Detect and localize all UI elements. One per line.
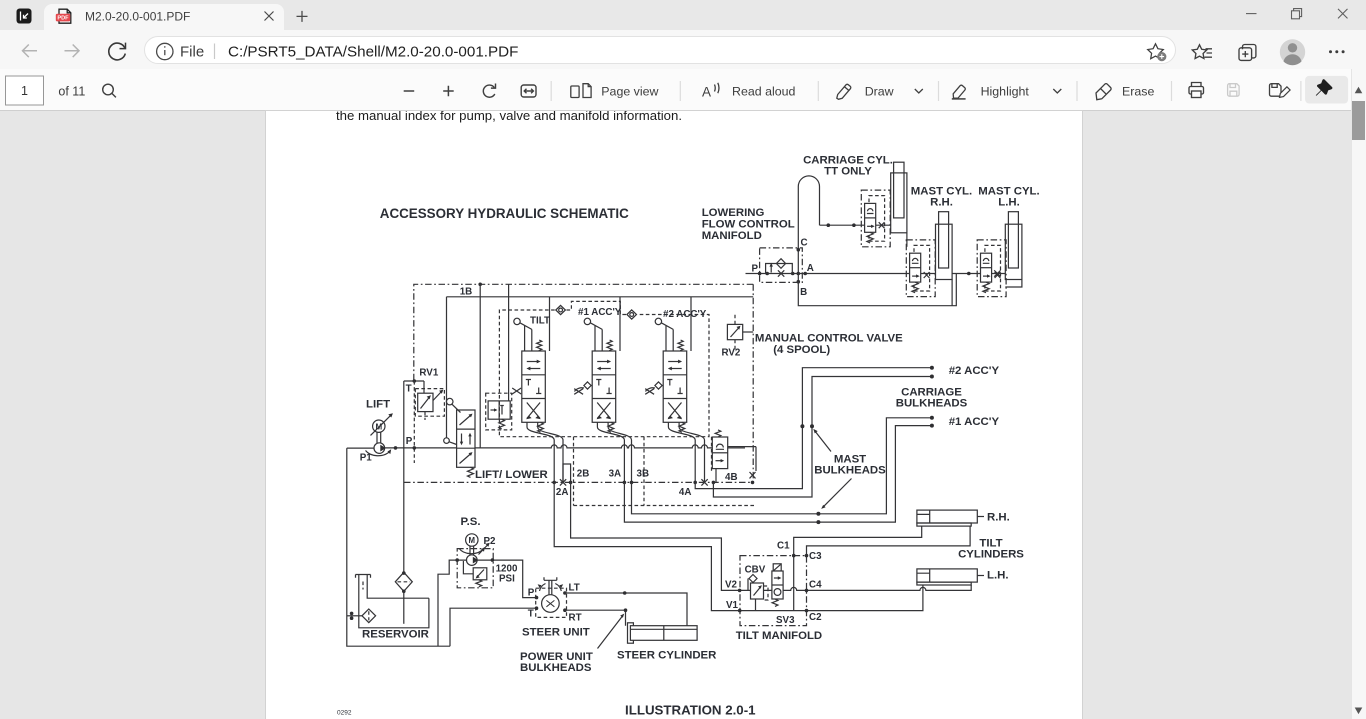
steer unit (536, 577, 567, 617)
new tab plus (297, 11, 308, 22)
wire PS pump output to steer P (477, 560, 536, 598)
svg-text:RESERVOIR: RESERVOIR (362, 628, 429, 640)
save icon (disabled) (1228, 84, 1240, 97)
steer cylinder (628, 623, 698, 643)
svg-text:P.S.: P.S. (461, 516, 481, 528)
wire spool feeds from top rail (550, 297, 692, 351)
tilt manifold box (740, 556, 807, 626)
svg-text:C:/PSRT5_DATA/Shell/M2.0-20.0-: C:/PSRT5_DATA/Shell/M2.0-20.0-001.PDF (228, 44, 518, 61)
mast bulkheads arrow 2 (824, 479, 852, 507)
suction strainer diamond (362, 609, 376, 623)
wire tilt manifold main line V2 to C4 (740, 587, 807, 590)
check valve diamond (776, 259, 785, 269)
port 2A orifice X (560, 479, 566, 485)
svg-text:File: File (180, 44, 204, 61)
forward arrow (disabled) (65, 45, 80, 58)
page number box (6, 76, 44, 105)
svg-text:MANUAL CONTROL VALVE: MANUAL CONTROL VALVE (755, 333, 903, 345)
svg-text:BULKHEADS: BULKHEADS (814, 465, 886, 477)
mast cylinder RH rod (939, 212, 949, 268)
svg-text:3A: 3A (609, 469, 622, 480)
back arrow (disabled) (23, 45, 38, 58)
solenoid valve SV3 (772, 564, 783, 607)
svg-text:P: P (752, 264, 759, 275)
svg-text:#2 ACC'Y: #2 ACC'Y (949, 365, 1000, 377)
tilt manifold port dots (792, 554, 796, 558)
svg-text:LOWERING: LOWERING (702, 207, 765, 219)
wire 3B port to no1 accy upper (632, 418, 932, 514)
svg-text:R.H.: R.H. (930, 197, 953, 209)
svg-text:L.H.: L.H. (987, 570, 1009, 582)
svg-text:M: M (469, 536, 476, 545)
svg-text:PSI: PSI (499, 574, 515, 585)
window restore (1292, 9, 1302, 19)
svg-text:3B: 3B (637, 469, 650, 480)
add favorite star (1148, 44, 1167, 61)
wire main pressure rail from pump P (385, 445, 746, 448)
svg-text:#2 ACC'Y: #2 ACC'Y (663, 309, 707, 320)
velocity fuse carriage (861, 190, 890, 247)
svg-text:T: T (406, 384, 412, 395)
relief valve RV1 (415, 389, 444, 420)
return filter diamond (395, 572, 412, 591)
port 4A orifice X (701, 479, 707, 485)
svg-text:SV3: SV3 (776, 615, 795, 626)
svg-text:A: A (807, 263, 814, 274)
svg-text:of 11: of 11 (58, 84, 85, 98)
workspace icon (17, 9, 32, 24)
node junction dots on carriage feed (827, 223, 831, 227)
counterbalance valve CBV (748, 575, 768, 611)
mast cylinder LH barrel (1005, 224, 1022, 279)
PS relief valve (463, 561, 486, 587)
svg-text:PDF: PDF (57, 16, 69, 22)
PS pump box (457, 549, 493, 588)
refresh (109, 43, 126, 60)
tilt cylinder LH (917, 569, 984, 585)
favorites bar star-list (1192, 45, 1212, 59)
svg-text:BULKHEADS: BULKHEADS (896, 398, 968, 410)
wire pump suction to left (347, 447, 374, 449)
lift pump motor M (366, 413, 393, 455)
spool valve ACC2 (655, 318, 687, 432)
svg-text:BULKHEADS: BULKHEADS (520, 662, 592, 674)
wire P stub into lowering manifold (746, 273, 760, 275)
manual control valve outer boundary dash-dot (414, 284, 753, 381)
search icon (103, 84, 116, 97)
velocity fuse mast RH (906, 240, 935, 297)
draw pen icon (837, 84, 851, 99)
svg-text:(4 SPOOL): (4 SPOOL) (773, 344, 830, 356)
svg-text:2B: 2B (577, 469, 590, 480)
port junction dots (552, 481, 556, 485)
wire carriage cylinder feed line (820, 224, 891, 226)
svg-text:#1 ACC'Y: #1 ACC'Y (949, 416, 1000, 428)
info circle (157, 43, 173, 59)
svg-text:T: T (528, 609, 534, 620)
svg-text:TT ONLY: TT ONLY (824, 166, 872, 178)
wire acc1 work lines (597, 422, 631, 482)
svg-text:C4: C4 (809, 580, 822, 591)
node 1B (478, 283, 482, 287)
wire lowering manifold internal line (760, 273, 803, 275)
collections (1239, 45, 1256, 61)
svg-text:1B: 1B (460, 287, 473, 298)
svg-text:2A: 2A (556, 487, 569, 498)
wire T rail (404, 381, 424, 393)
wire left wall (403, 381, 405, 448)
eraser icon (1096, 84, 1111, 100)
scrollbar arrows (1355, 87, 1363, 94)
ellipsis (1329, 50, 1345, 53)
wire 2B port to tilt manifold V2 (571, 482, 740, 590)
wire tank return dashed (413, 381, 415, 463)
svg-text:LT: LT (569, 583, 580, 594)
svg-text:P: P (528, 588, 535, 599)
anti-drift valve 4B (712, 430, 756, 483)
node A junction (797, 272, 801, 276)
spool pilot orifice TILT (512, 388, 521, 394)
svg-text:C: C (801, 238, 808, 249)
zoom out (404, 90, 415, 92)
svg-text:MANIFOLD: MANIFOLD (702, 230, 762, 242)
node C (797, 248, 801, 252)
wire tilt work lines (527, 422, 563, 482)
zoom in (443, 86, 454, 97)
power unit bulkheads arrow (598, 616, 623, 648)
svg-text:TILT MANIFOLD: TILT MANIFOLD (736, 630, 822, 642)
wire 4A port to no2 accy upper (695, 368, 932, 489)
wire 3A port to no1 accy lower (624, 426, 932, 522)
spool pilot check ACC1 (574, 382, 592, 394)
svg-text:L.H.: L.H. (998, 197, 1020, 209)
coupler diamond 1 (556, 305, 566, 314)
svg-text:A: A (702, 85, 711, 100)
svg-text:1: 1 (21, 84, 28, 98)
PS pump P2 (467, 555, 479, 566)
wire reservoir loop to PS pump suction (438, 560, 467, 646)
carriage cylinder barrel (891, 173, 907, 233)
svg-text:#1 ACC'Y: #1 ACC'Y (578, 307, 622, 318)
svg-text:V2: V2 (725, 580, 738, 591)
wire V1 line to LH tilt cylinder piston (740, 585, 923, 611)
svg-text:STEER UNIT: STEER UNIT (522, 627, 590, 639)
window close (1338, 9, 1348, 19)
wire mast LH barrel bottom (1005, 280, 1022, 288)
wire C4 to LH tilt cylinder rod (807, 585, 972, 590)
highlight icon (952, 85, 966, 99)
svg-text:0292: 0292 (337, 710, 352, 717)
wire 1B drop (479, 284, 481, 448)
mast bulkheads arrow 1 (815, 431, 831, 451)
svg-text:STEER CYLINDER: STEER CYLINDER (617, 650, 716, 662)
lift pump P1 (374, 443, 386, 454)
svg-text:FLOW CONTROL: FLOW CONTROL (702, 219, 795, 231)
svg-text:Erase: Erase (1122, 85, 1154, 99)
svg-text:V1: V1 (726, 600, 739, 611)
svg-text:C3: C3 (809, 551, 822, 562)
lift/lower spool valve (444, 398, 475, 477)
svg-text:M2.0-20.0-001.PDF: M2.0-20.0-001.PDF (85, 10, 190, 24)
svg-text:P: P (406, 436, 413, 447)
svg-text:LIFT/ LOWER: LIFT/ LOWER (475, 469, 548, 481)
spool valve ACC1 (584, 318, 616, 432)
wire suction line far left (347, 448, 450, 646)
wire T-return left wall down to return filter (403, 448, 405, 572)
reservoir tank (356, 575, 429, 628)
velocity fuse mast LH (977, 240, 1006, 297)
svg-text:ACCESSORY HYDRAULIC SCHEMATIC: ACCESSORY HYDRAULIC SCHEMATIC (380, 206, 629, 221)
wire tilt manifold C1 internal drop (793, 556, 795, 611)
svg-text:B: B (800, 287, 807, 298)
orifice X mast RH (994, 270, 1000, 276)
flow arrow up (770, 265, 772, 273)
mast bulkhead dots (800, 424, 804, 428)
svg-text:4A: 4A (679, 487, 692, 498)
node B (797, 280, 801, 284)
wire steer T return (450, 608, 537, 646)
orifice X lowering manifold (778, 270, 784, 276)
port 2B staple (563, 464, 571, 482)
svg-text:CYLINDERS: CYLINDERS (958, 549, 1024, 561)
tab close (265, 12, 274, 21)
svg-text:C2: C2 (809, 612, 822, 623)
pilot drain dashed rails (574, 437, 756, 506)
wire acc2 work lines (668, 422, 704, 482)
rotate (483, 84, 495, 98)
svg-text:4B: 4B (725, 472, 738, 483)
relief valve RV2 (727, 315, 753, 353)
wire LT line (565, 593, 687, 626)
read aloud icon (702, 83, 719, 100)
svg-text:RV1: RV1 (419, 368, 438, 379)
svg-text:Page view: Page view (601, 85, 658, 99)
wire A-line to mast cylinders (802, 273, 1005, 275)
profile avatar (1280, 39, 1305, 65)
check valve bypass loop (766, 264, 793, 274)
mast cylinder LH rod (1008, 212, 1018, 268)
svg-text:P1: P1 (360, 453, 373, 464)
svg-text:the manual index for pump, val: the manual index for pump, valve and man… (336, 111, 682, 123)
svg-text:LIFT: LIFT (366, 399, 390, 411)
svg-text:ILLUSTRATION 2.0-1: ILLUSTRATION 2.0-1 (625, 703, 756, 718)
pin button (1305, 76, 1348, 104)
spool valve TILT (514, 318, 546, 432)
wire carriage inverted-U pipe and return line to mast area (798, 176, 956, 306)
wire pilot feed to tilt section (508, 284, 510, 401)
spool group dashed boundary (499, 310, 709, 437)
svg-text:Read aloud: Read aloud (732, 85, 795, 99)
wire 2A port to tilt manifold V1 (554, 482, 740, 610)
pilot box tilt section (486, 393, 512, 430)
svg-text:C1: C1 (777, 541, 790, 552)
PS motor M (459, 534, 490, 555)
window minimize (1246, 13, 1257, 15)
tilt cylinder RH (917, 510, 984, 526)
wire 4B port to no2 accy lower (713, 377, 932, 498)
steer port dots (535, 596, 539, 600)
accy terminal dots (930, 366, 934, 370)
mast cylinder RH barrel (936, 224, 953, 279)
print icon (1189, 83, 1204, 98)
save as icon (1269, 84, 1290, 98)
wire standpipe into tank (403, 591, 405, 624)
svg-text:P2: P2 (484, 536, 497, 547)
wire C1 to RH tilt cylinder piston (794, 526, 922, 556)
spool pilot check ACC2 (645, 382, 663, 394)
wire internal top rail (447, 296, 754, 298)
schematic layer (266, 111, 1082, 719)
pdf tab icon (56, 9, 71, 23)
svg-text:TILT: TILT (530, 316, 550, 327)
svg-text:CBV: CBV (745, 565, 766, 576)
carriage cylinder rod (894, 162, 904, 218)
svg-text:RT: RT (569, 613, 582, 624)
wire mast RH barrel drain (951, 280, 953, 306)
svg-text:Highlight: Highlight (981, 85, 1030, 99)
coupler diamond 2 (627, 310, 637, 319)
svg-text:Draw: Draw (865, 85, 894, 99)
wire C3 to RH tilt cylinder rod (807, 526, 971, 556)
lowering flow control manifold box (760, 248, 803, 283)
fit to width (521, 85, 536, 97)
page view icon (571, 84, 591, 98)
svg-text:RV2: RV2 (722, 348, 741, 359)
svg-text:R.H.: R.H. (987, 512, 1010, 524)
wire lift spool feed (446, 297, 448, 438)
wire RT line (565, 610, 626, 626)
